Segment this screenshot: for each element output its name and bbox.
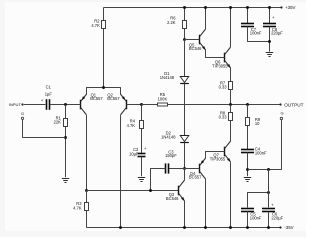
capacitor C8 [263, 15, 283, 36]
svg-text:BC557: BC557 [107, 96, 120, 101]
node diff tail junction [102, 86, 105, 89]
wire ground link to G terminal [248, 120, 282, 170]
wire R6 top lead [183, 6, 186, 20]
wire node B to C3 [168, 168, 184, 170]
svg-text:100nF: 100nF [250, 31, 262, 36]
terminal -35V [279, 225, 293, 230]
wire Q2 collector to -35V rail [120, 115, 122, 227]
node C1/R1/Q1-base junction [64, 103, 67, 106]
transistor Q1 BC557 [75, 92, 103, 115]
transistor Q2 BC557 [107, 92, 141, 115]
capacitor C1 [41, 85, 53, 110]
diode D1 1N4148 [160, 71, 189, 84]
node ground-link/C6 junction [267, 168, 270, 171]
svg-text:220µF: 220µF [271, 31, 283, 36]
svg-text:+35V: +35V [285, 5, 295, 10]
wire C7 bottom link [248, 27, 270, 42]
capacitor C2 [129, 146, 147, 156]
svg-text:+: + [271, 202, 274, 207]
wire R2 to diff-pair tail [103, 29, 105, 88]
wire R5 to OUTPUT [168, 104, 281, 106]
transistor Q4 BC557 [185, 158, 206, 179]
wire Q3 base line [87, 190, 179, 192]
wire C4 to ground node [247, 153, 249, 177]
node Q1-collector/Q3-base junction [85, 189, 88, 192]
wire C6 bottom lead [267, 212, 270, 229]
svg-text:2.2K: 2.2K [167, 20, 176, 25]
wire C1 to Q1 base [50, 104, 75, 106]
wire Q5 collector to +35V [204, 6, 207, 29]
terminal +35V [280, 5, 295, 10]
svg-text:+: + [272, 15, 275, 20]
svg-text:10µF: 10µF [129, 151, 139, 156]
wire C2 to ground [141, 157, 143, 177]
svg-text:4.7K: 4.7K [91, 23, 100, 28]
wire Q1 collector down [86, 115, 88, 190]
transistor Q5 BC546 [185, 29, 206, 51]
svg-text:4.7K: 4.7K [73, 205, 82, 210]
wire C3 to Q3 base [151, 169, 166, 191]
svg-text:BC546: BC546 [166, 196, 179, 201]
svg-text:TIP3055: TIP3055 [212, 63, 228, 68]
wire R9 top lead [247, 105, 249, 118]
node C5/C6 junction [267, 191, 270, 194]
wire Q4 emitter to Q7 base [206, 152, 219, 159]
node C3/Q3-base junction [149, 189, 152, 192]
terminal G input [21, 111, 24, 119]
wire -35V supply rail [87, 227, 281, 229]
wire node to D1 [184, 40, 186, 77]
resistor R8 [219, 110, 233, 120]
diode D2 1N4148 [161, 130, 189, 142]
svg-text:G: G [280, 110, 283, 115]
wire R9 to C4 [247, 126, 249, 150]
terminal INPUT [9, 102, 24, 107]
resistor R4 [127, 119, 144, 129]
wire Q5 emitter to Q6 base [206, 50, 219, 58]
capacitor C5 [241, 209, 262, 221]
wire R8 to Q7 collector [230, 121, 232, 142]
resistor R1 [54, 116, 68, 127]
wire Q4 collector to -35V rail [204, 179, 207, 229]
wire G to R1 bottom [23, 120, 66, 138]
svg-text:150pF: 150pF [165, 153, 177, 158]
wire C8 top lead [268, 6, 271, 23]
wire R7 to output line [230, 90, 232, 105]
wire R2 top lead [103, 8, 105, 21]
node R7/R8 output junction [229, 103, 232, 106]
node Q5 base junction [183, 38, 186, 41]
svg-text:G: G [21, 111, 24, 116]
node B junction [183, 167, 186, 170]
ground C4 ground [244, 178, 251, 182]
wire R1 top lead [65, 105, 67, 119]
capacitor C6 [262, 202, 284, 220]
wire feedback node to R5 [142, 104, 158, 106]
svg-text:-35V: -35V [284, 225, 293, 230]
resistor R5 [158, 92, 168, 106]
wire R4 top lead [141, 105, 143, 121]
wire R3 to -35V rail [86, 211, 88, 228]
svg-text:1N4148: 1N4148 [161, 135, 176, 140]
node feedback junction [140, 103, 143, 106]
terminal G output [280, 110, 283, 119]
svg-text:4.7K: 4.7K [127, 123, 136, 128]
svg-text:BC557: BC557 [189, 174, 202, 179]
wire C6 top lead [268, 170, 270, 208]
capacitor C7 [241, 24, 262, 36]
svg-text:1µF: 1µF [45, 92, 53, 97]
transistor Q3 BC546 [166, 180, 185, 201]
wire +35V supply rail [104, 7, 282, 9]
svg-text:1N4148: 1N4148 [160, 75, 175, 80]
svg-text:INPUT: INPUT [9, 102, 22, 107]
resistor R3 [73, 201, 88, 210]
wire Q7 emitter to -35V rail [229, 162, 232, 229]
resistor R6 [167, 16, 186, 29]
capacitor C4 [241, 146, 267, 155]
svg-text:220µF: 220µF [271, 215, 283, 220]
svg-text:BC557: BC557 [90, 96, 103, 101]
svg-text:C1: C1 [46, 85, 52, 90]
transistor Q7 TIP3055 [210, 141, 231, 162]
node R9 output junction [246, 103, 249, 106]
ground C2 ground [138, 178, 145, 182]
resistor R9 [246, 117, 261, 126]
node C4 ground junction [246, 168, 249, 171]
svg-text:22K: 22K [54, 120, 62, 125]
resistor R2 [91, 18, 105, 28]
svg-text:TIP3055: TIP3055 [210, 156, 226, 161]
svg-text:100K: 100K [158, 96, 168, 101]
svg-text:OUTPUT: OUTPUT [284, 102, 303, 107]
svg-text:100nF: 100nF [250, 215, 262, 220]
svg-text:100nF: 100nF [255, 150, 267, 155]
wire C8 to ground [268, 27, 271, 52]
wire R4 to C2 [141, 129, 143, 154]
ground input ground [62, 179, 69, 183]
svg-text:+: + [41, 98, 44, 103]
node Q2-collector rail junction [119, 226, 122, 229]
wire Q3 emitter to -35V rail [183, 201, 186, 229]
wire input to C1 [24, 104, 46, 106]
wire Q6 collector to +35V [229, 6, 232, 47]
wire R1 bottom lead [65, 127, 67, 178]
wire C5 top link [248, 193, 269, 208]
wire C7 top lead [246, 6, 249, 23]
resistor R7 [219, 80, 233, 89]
ground C8 ground [266, 53, 273, 57]
wire C5 bottom lead [246, 212, 249, 229]
svg-text:0.33: 0.33 [219, 115, 228, 120]
svg-text:BC546: BC546 [189, 46, 202, 51]
wire Q3 collector to node B [184, 169, 186, 181]
wire diff-pair emitter rail [87, 88, 121, 95]
wire R8 top lead [230, 105, 232, 113]
node R1/G junction [64, 136, 67, 139]
terminal OUTPUT [279, 102, 303, 107]
wire R6 to Q5-base node [184, 29, 186, 40]
wire Q6 emitter to R7 [230, 68, 232, 82]
wire junction to R3 [86, 191, 88, 203]
capacitor C3 [165, 149, 177, 173]
transistor Q6 TIP3055 [212, 47, 230, 68]
svg-text:10: 10 [255, 121, 260, 126]
wire D2 to node B [184, 143, 186, 169]
wire D1 to D2 [184, 84, 186, 136]
svg-text:+: + [144, 146, 147, 151]
svg-text:0.33: 0.33 [219, 85, 228, 90]
